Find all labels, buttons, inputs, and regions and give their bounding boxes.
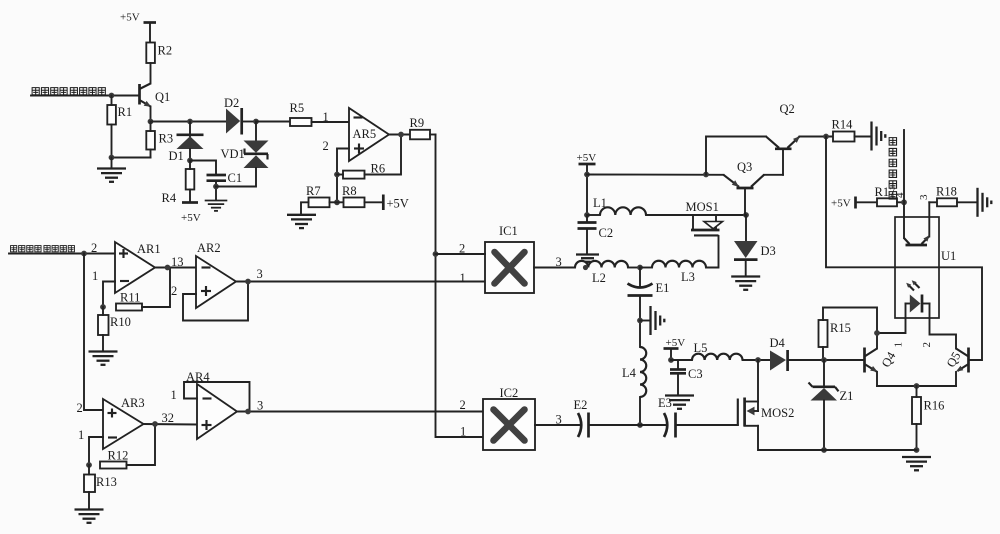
- ground of C2 (overlapping L2): [576, 255, 599, 271]
- svg-text:2: 2: [77, 401, 83, 415]
- diode D3: [734, 215, 776, 276]
- op-amp AR1: [115, 242, 161, 293]
- svg-text:MOS1: MOS1: [686, 200, 719, 214]
- node 模拟电路参考信号 (analog reference signal input label): [11, 246, 75, 252]
- node AR2 output pin 3: [236, 267, 485, 284]
- node U1 pin1/R15/Q4 junction: [874, 330, 880, 336]
- capacitor C3: [670, 360, 703, 395]
- svg-text:R15: R15: [830, 321, 851, 335]
- +5V terminal at R17: [831, 197, 877, 210]
- TVS diode VD1: [216, 122, 269, 187]
- svg-text:L4: L4: [622, 366, 637, 380]
- svg-text:E2: E2: [574, 398, 588, 412]
- node AR3 output pin 32: [144, 411, 198, 427]
- capacitor C2: [578, 215, 614, 254]
- svg-text:D2: D2: [224, 96, 239, 110]
- node Q1 emitter junction: [148, 119, 154, 125]
- resistor R5: [290, 101, 350, 126]
- resistor R7: [301, 184, 344, 214]
- svg-text:2: 2: [171, 284, 177, 298]
- svg-text:R3: R3: [159, 132, 174, 146]
- capacitor C1: [207, 171, 243, 200]
- wire U1 pin 3 to R18: [929, 202, 937, 236]
- diode D1: [169, 119, 204, 164]
- resistor R8: [342, 184, 383, 207]
- optocoupler U1 phototransistor: [904, 217, 930, 245]
- svg-text:C2: C2: [599, 226, 614, 240]
- wire AR2 buffer feedback loop: [183, 282, 248, 321]
- wire fault alarm signal line: [903, 130, 905, 217]
- wire IC2 pin 3 output: [535, 413, 582, 427]
- node AR5 output: [389, 132, 410, 138]
- wire R1/R3 bottom junction: [112, 157, 151, 159]
- resistor R1: [107, 96, 132, 158]
- resistor R13: [84, 465, 117, 509]
- mixer IC2: [483, 386, 535, 450]
- wire L1 to MOS1 and node: [646, 214, 746, 216]
- ground below R16: [902, 457, 931, 470]
- svg-text:L3: L3: [681, 270, 695, 284]
- wire left bus down to AR3: [84, 254, 103, 411]
- resistor R10: [98, 307, 131, 351]
- transistor Q3: [724, 160, 784, 215]
- svg-text:AR5: AR5: [353, 127, 377, 141]
- diode D2: [224, 96, 256, 135]
- resistor R18: [936, 185, 976, 207]
- resistor R3: [146, 122, 173, 158]
- resistor R15: [819, 308, 878, 361]
- node R16/source line junction: [914, 447, 920, 453]
- +5V terminal below R4: [181, 203, 201, 225]
- wire D1 bottom to C1: [190, 161, 216, 176]
- MOSFET MOS2: [738, 360, 917, 450]
- svg-text:R7: R7: [306, 184, 321, 198]
- svg-text:D4: D4: [770, 336, 786, 350]
- svg-text:4: 4: [894, 192, 906, 198]
- node AR1 output, pin 13: [155, 255, 196, 270]
- node 模拟电路采集信号 (analog sampling signal input label): [32, 88, 105, 95]
- zener Z1: [809, 360, 854, 450]
- svg-text:R6: R6: [371, 162, 386, 176]
- wire emitter node to D2: [151, 121, 227, 123]
- wire AR1 - input branch: [103, 282, 115, 308]
- svg-text:2: 2: [91, 241, 97, 255]
- capacitor E2: [574, 398, 641, 438]
- resistor R17: [875, 185, 905, 206]
- node D4/R15/Z1/Q4 base junction: [821, 357, 827, 363]
- svg-text:IC2: IC2: [500, 386, 519, 400]
- svg-text:D3: D3: [761, 244, 776, 258]
- ground below R10: [89, 352, 118, 365]
- svg-text:E1: E1: [656, 281, 670, 295]
- resistor R4: [162, 161, 195, 206]
- node Z1/source line junction: [821, 447, 827, 453]
- svg-text:1: 1: [893, 342, 905, 348]
- wire U1 pin 1 lead: [877, 318, 906, 348]
- svg-text:2: 2: [459, 242, 465, 256]
- svg-text:R8: R8: [342, 184, 357, 198]
- inductor L5: [671, 341, 770, 360]
- svg-text:R2: R2: [158, 44, 173, 58]
- wire IC1 pin 2: [436, 242, 486, 256]
- svg-text:IC1: IC1: [499, 224, 518, 238]
- ground at R7: [287, 215, 316, 228]
- sideways ground at R14: [872, 122, 886, 151]
- inductor L2: [575, 261, 640, 285]
- svg-text:13: 13: [171, 255, 184, 269]
- transistor Q5: [944, 348, 969, 387]
- svg-text:R11: R11: [120, 291, 140, 305]
- node MOS1/Q3/D3 junction: [743, 212, 749, 218]
- svg-text:1: 1: [171, 388, 177, 402]
- svg-text:+5V: +5V: [120, 12, 140, 24]
- optocoupler U1 LED: [906, 280, 930, 318]
- transistor Q1: [140, 84, 171, 122]
- svg-text:R5: R5: [290, 101, 305, 115]
- svg-text:U1: U1: [941, 249, 956, 263]
- node 故障报警信号 (fault alarm signal label, rotated): [889, 138, 896, 199]
- svg-text:2: 2: [921, 342, 933, 348]
- svg-text:R12: R12: [108, 449, 129, 463]
- svg-text:2: 2: [323, 139, 329, 153]
- wire Q2 node to Q5 base (long loop): [826, 137, 982, 361]
- node junction dot: [109, 93, 115, 99]
- svg-text:R10: R10: [110, 315, 131, 329]
- svg-text:+5V: +5V: [831, 198, 851, 210]
- op-amp AR4: [186, 370, 237, 439]
- capacitor E3: [640, 396, 738, 438]
- svg-text:R16: R16: [924, 399, 945, 413]
- wire AR3 - input branch: [89, 437, 103, 465]
- wire IC1 pin 3 output: [534, 255, 575, 269]
- wire input to Q1 base: [31, 95, 140, 97]
- wire AR4 buffer feedback loop: [184, 382, 250, 412]
- node L4/E2/E3 junction: [637, 422, 643, 428]
- svg-text:AR2: AR2: [197, 241, 221, 255]
- transistor Q4: [865, 348, 899, 387]
- +5V terminal at R8: [383, 195, 409, 211]
- op-amp AR2: [196, 241, 236, 308]
- svg-text:D1: D1: [169, 149, 184, 163]
- svg-text:L5: L5: [694, 341, 708, 355]
- svg-text:3: 3: [556, 255, 562, 269]
- svg-text:R14: R14: [832, 118, 854, 132]
- svg-text:VD1: VD1: [221, 147, 245, 161]
- svg-text:R18: R18: [936, 185, 957, 199]
- optocoupler U1 box: [895, 217, 956, 318]
- svg-text:1: 1: [460, 425, 466, 439]
- sideways ground at E1: [640, 306, 664, 335]
- svg-text:1: 1: [92, 269, 98, 283]
- wire AR5 + input branch: [337, 149, 349, 203]
- svg-text:R13: R13: [96, 475, 117, 489]
- svg-text:L1: L1: [593, 196, 607, 210]
- wire RF bus from R9 down to mixers: [436, 135, 484, 438]
- sideways ground at R18: [978, 188, 992, 217]
- +5V supply middle: [577, 152, 597, 218]
- mixer IC1: [485, 224, 534, 293]
- svg-text:+5V: +5V: [387, 197, 409, 211]
- svg-text:C3: C3: [688, 367, 703, 381]
- svg-text:AR3: AR3: [121, 396, 145, 410]
- MOSFET MOS1: [686, 200, 723, 235]
- svg-text:Q2: Q2: [780, 102, 795, 116]
- node R17/U1 pin 4 junction: [901, 199, 907, 205]
- diode D4: [770, 336, 825, 371]
- resistor R2: [146, 43, 172, 84]
- capacitor E1: [628, 268, 670, 348]
- inductor L1: [587, 196, 646, 215]
- svg-text:MOS2: MOS2: [761, 406, 794, 420]
- node AR4 output pin 3: [237, 399, 483, 415]
- svg-text:Q3: Q3: [737, 160, 752, 174]
- ground below C3: [665, 396, 694, 409]
- svg-text:3: 3: [257, 267, 263, 281]
- svg-text:L2: L2: [592, 271, 606, 285]
- svg-text:E3: E3: [658, 396, 672, 410]
- svg-text:2: 2: [460, 398, 466, 412]
- node D2/VD1/R5 junction: [253, 119, 259, 125]
- transistor Q2: [706, 102, 833, 175]
- wire reference input to AR1: [9, 253, 115, 255]
- inductor L4: [622, 347, 646, 425]
- wire +5V rail to Q3: [587, 174, 724, 176]
- svg-text:1: 1: [323, 110, 329, 124]
- ground below D3: [731, 277, 760, 290]
- resistor R16: [912, 386, 944, 450]
- svg-text:+5V: +5V: [181, 212, 201, 224]
- op-amp AR3: [103, 396, 145, 449]
- svg-text:Z1: Z1: [840, 389, 854, 403]
- svg-text:1: 1: [460, 271, 466, 285]
- ground below C1: [205, 201, 228, 211]
- svg-text:32: 32: [162, 411, 175, 425]
- +5V supply top left: [120, 12, 156, 43]
- inductor L3: [640, 236, 719, 284]
- node L2/L3/E1 junction: [637, 265, 643, 271]
- resistor R12: [100, 424, 155, 469]
- svg-text:C1: C1: [228, 171, 243, 185]
- svg-text:R4: R4: [162, 191, 177, 205]
- svg-text:R9: R9: [410, 116, 425, 130]
- resistor R14: [832, 118, 871, 142]
- ground below R1: [97, 169, 126, 182]
- node L5/MOS2 drain junction: [755, 357, 761, 363]
- svg-text:3: 3: [918, 194, 930, 200]
- svg-text:Q1: Q1: [155, 90, 170, 104]
- wire Q4/Q5 emitter bus: [877, 385, 956, 387]
- +5V supply at L5: [664, 337, 686, 363]
- op-amp AR5: [349, 108, 389, 161]
- svg-text:3: 3: [257, 399, 263, 413]
- resistor R11: [116, 268, 170, 311]
- wire U1 pin 2 lead: [921, 318, 956, 349]
- resistor R6: [337, 135, 401, 179]
- svg-text:3: 3: [556, 413, 562, 427]
- svg-text:R1: R1: [118, 105, 133, 119]
- resistor R9: [410, 116, 436, 139]
- svg-text:1: 1: [78, 428, 84, 442]
- svg-text:AR1: AR1: [137, 242, 161, 256]
- svg-text:+5V: +5V: [577, 152, 597, 164]
- node Q2 emitter/R14 junction: [823, 134, 829, 140]
- ground below R13: [75, 510, 104, 523]
- wire Q4 base line: [824, 359, 865, 361]
